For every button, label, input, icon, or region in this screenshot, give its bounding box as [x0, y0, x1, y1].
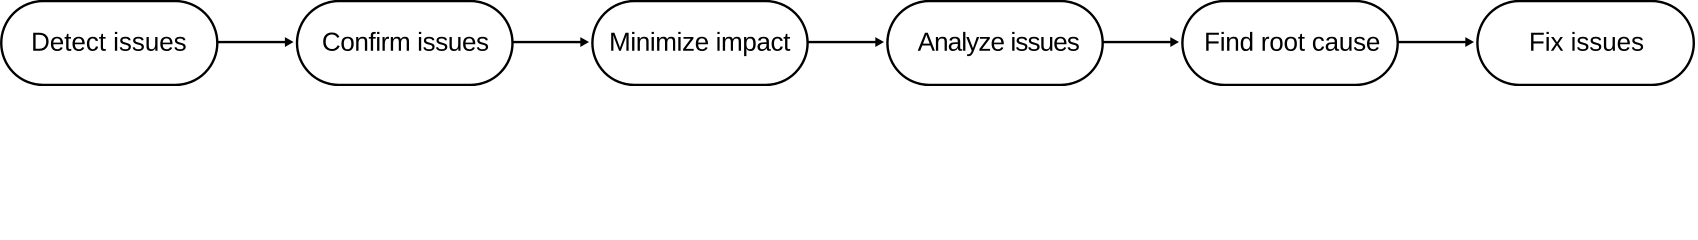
node: Analyze issues — [887, 1, 1102, 85]
wire: arrow Detect issues -> Confirm issues — [217, 37, 293, 47]
node: Find root cause — [1182, 1, 1397, 85]
node: Minimize impact — [592, 1, 807, 85]
wire: arrow Find root cause -> Fix issues — [1398, 37, 1474, 47]
node: Detect issues — [1, 1, 217, 85]
wire: arrow Analyze issues -> Find root cause — [1103, 37, 1179, 47]
wire: arrow Minimize impact -> Analyze issues — [808, 37, 884, 47]
node: Confirm issues — [297, 1, 513, 85]
node: Fix issues — [1477, 1, 1693, 85]
wire: arrow Confirm issues -> Minimize impact — [513, 37, 590, 47]
